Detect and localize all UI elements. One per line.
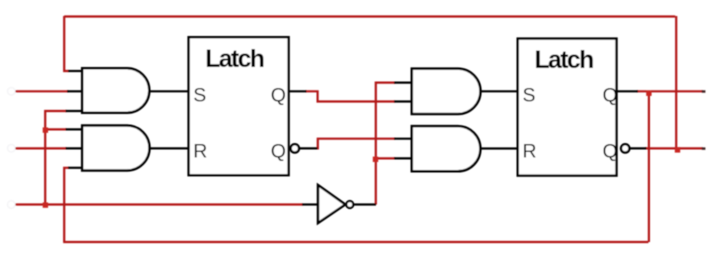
- svg-text:S: S: [523, 85, 536, 107]
- wire clock input line: [15, 203, 303, 205]
- inverter U3 triangle: [318, 185, 345, 223]
- latch U2: [518, 39, 618, 176]
- wire Q-bar2 output end tip: [702, 147, 706, 149]
- wire Q2 feedback drop: [648, 91, 650, 242]
- wire G4 output to latch2 R: [480, 147, 518, 149]
- wire bottom feedback rail: [63, 241, 648, 243]
- svg-text:Q: Q: [603, 85, 618, 107]
- and gate G2: [82, 126, 149, 171]
- wire inverter input stub: [302, 203, 318, 205]
- svg-text:R: R: [523, 141, 537, 163]
- pin clock input ghost: [8, 201, 16, 209]
- svg-text:Latch: Latch: [535, 47, 594, 74]
- wire G3 bottom input stub: [394, 100, 412, 102]
- wire Q2 output end tip: [702, 90, 706, 92]
- and gate G1: [82, 68, 149, 113]
- wire Q-bar1 to G4 upper input (jogged): [317, 139, 396, 149]
- svg-text:Latch: Latch: [205, 46, 264, 73]
- wire inverted clock vertical to G3 top input: [376, 83, 395, 205]
- wire G2 bottom input stub: [68, 167, 83, 169]
- wire clock vertical to G1 bottom input: [45, 111, 66, 205]
- junction inverted clock to G4 bottom input: [373, 157, 378, 162]
- and gate G4: [412, 126, 481, 171]
- wire G1 top input stub: [68, 70, 83, 72]
- wire J input: [15, 90, 68, 92]
- latch U1: [189, 37, 289, 175]
- pin K input ghost: [8, 144, 16, 152]
- wire right feedback vertical from rail to Q-bar node: [675, 16, 677, 148]
- wire G4 bottom input stub: [394, 157, 412, 159]
- wire Q1 to G3 lower input (jogged): [306, 91, 396, 101]
- wire inverter output stub: [354, 203, 377, 205]
- svg-text:S: S: [193, 85, 206, 107]
- wire inverted clock tee to G4 bottom input: [376, 157, 395, 159]
- junction right feedback at Q-bar2 line: [675, 147, 680, 152]
- wire bottom feedback vertical to G2 bottom input: [64, 168, 68, 242]
- wire G2 top input stub: [66, 128, 83, 130]
- junction clock vertical at clock line: [43, 202, 48, 207]
- pin J input ghost: [8, 88, 16, 96]
- wire G1 output to latch1 S: [149, 90, 188, 92]
- and gate G3: [412, 69, 481, 114]
- wire G1 middle input stub: [67, 90, 83, 92]
- junction clock to G2 top input: [43, 127, 48, 132]
- wire clock tee to G2 top input: [45, 128, 66, 130]
- svg-text:Q: Q: [271, 85, 286, 107]
- wire left feedback vertical to G1 top input: [64, 16, 68, 71]
- wire K input: [15, 147, 66, 149]
- inverter bubble on latch2 Q-bar: [621, 144, 629, 152]
- wire top feedback rail: [64, 15, 675, 17]
- wire G2 output to latch1 R: [149, 147, 188, 149]
- svg-text:R: R: [193, 141, 207, 163]
- wire G3 top input stub: [394, 81, 412, 83]
- wire Q-bar2 stub: [629, 147, 646, 149]
- svg-text:Q: Q: [271, 141, 286, 163]
- wire Q-bar2 output: [645, 147, 703, 149]
- wire Q2 output: [637, 90, 703, 92]
- inverter bubble on latch1 Q-bar: [291, 144, 299, 152]
- inverter U3 bubble: [346, 201, 353, 208]
- wire Q1 stub: [290, 90, 307, 92]
- svg-text:Q: Q: [603, 141, 618, 163]
- wire G3 output to latch2 S: [480, 90, 518, 92]
- wire G1 bottom input stub: [66, 110, 83, 112]
- wire Q2 stub: [617, 90, 639, 92]
- wire G4 top input stub: [394, 138, 412, 140]
- wire Q-bar1 stub: [299, 147, 318, 149]
- junction Q2 feedback drop: [646, 91, 651, 96]
- wire G2 middle input stub: [66, 147, 83, 149]
